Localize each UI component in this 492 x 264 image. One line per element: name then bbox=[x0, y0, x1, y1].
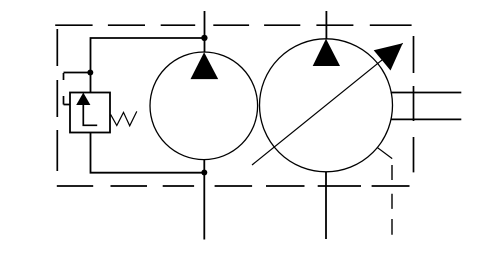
gear pump bottom wire bbox=[203, 160, 205, 240]
variable pump bottom wire bbox=[325, 172, 327, 239]
case drain diagonal bbox=[378, 148, 393, 159]
case drain dashed line bbox=[391, 165, 393, 235]
junction dot at relief valve inlet bbox=[87, 70, 93, 76]
relief valve outlet wire to tank line bbox=[91, 133, 205, 173]
gear pump P1 circle bbox=[150, 52, 258, 160]
relief valve flow path stem bbox=[83, 105, 97, 125]
variable displacement arrow shaft bbox=[252, 43, 403, 165]
enclosure left dashed edge bbox=[56, 29, 58, 171]
variable pump P2 flow triangle bbox=[313, 39, 340, 66]
gear pump P1 flow triangle bbox=[191, 52, 219, 79]
relief valve flow arrow bbox=[76, 93, 90, 105]
port line A (upper right) bbox=[391, 92, 462, 94]
enclosure right dashed edge bbox=[413, 36, 415, 172]
relief valve inlet wire bbox=[90, 73, 92, 93]
junction dot at tank line bbox=[201, 170, 207, 176]
enclosure bottom dashed edge bbox=[57, 185, 410, 187]
relief valve V1 body bbox=[70, 93, 110, 133]
junction dot at gear pump top bbox=[201, 35, 207, 41]
variable pump top stub wire bbox=[325, 11, 327, 39]
relief valve pilot line (dashed) bbox=[64, 73, 89, 105]
port line B (lower right) bbox=[392, 118, 462, 120]
wire: top-left supply line to relief valve bbox=[91, 38, 205, 73]
relief valve spring bbox=[111, 111, 137, 125]
variable pump P2 circle bbox=[260, 39, 393, 172]
variable displacement arrowhead bbox=[374, 43, 403, 70]
enclosure top dashed edge bbox=[55, 24, 411, 26]
wire: top stub of gear pump bbox=[204, 11, 206, 53]
